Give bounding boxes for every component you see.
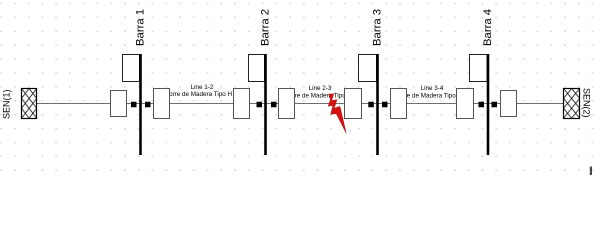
svg-text:Torre de Madera Tipo H: Torre de Madera Tipo H	[166, 91, 233, 98]
breaker left of Barra 1	[131, 102, 137, 108]
bus Barra 4	[487, 54, 490, 155]
breaker right of Barra 1	[145, 102, 151, 108]
svg-text:Line 2-3: Line 2-3	[309, 85, 332, 92]
svg-text:Line 3-4: Line 3-4	[421, 85, 444, 92]
bus Barra 2	[264, 54, 267, 155]
external grid SEN(2)	[564, 89, 580, 119]
result box SEN(2) feeder	[501, 91, 517, 117]
external grid SEN(1)	[22, 89, 37, 119]
breaker left of Barra 3	[368, 102, 374, 108]
result box line 2-3 left end	[279, 89, 295, 119]
svg-text:SEN(2): SEN(2)	[582, 88, 592, 118]
result box bus Barra 3	[359, 55, 377, 82]
svg-text:Line 1-2: Line 1-2	[191, 84, 214, 91]
result box line 3-4 right end	[457, 89, 474, 119]
breaker right of Barra 2	[271, 102, 277, 108]
result box bus Barra 1	[123, 55, 140, 82]
breaker right of Barra 3	[382, 102, 388, 108]
bus Barra 1	[139, 54, 142, 155]
bus Barra 3	[376, 54, 379, 155]
svg-text:SEN(1): SEN(1)	[2, 89, 12, 119]
svg-text:Barra 4: Barra 4	[482, 9, 494, 46]
result box SEN(1) feeder	[111, 91, 127, 117]
result box line 1-2 right end	[234, 89, 250, 119]
wire main horizontal feeder from SEN(1) to SEN(2)	[37, 103, 564, 105]
short-circuit bolt on Line 2-3	[328, 94, 346, 133]
svg-text:Barra 1: Barra 1	[135, 9, 147, 46]
breaker left of Barra 2	[257, 102, 263, 108]
result box line 3-4 left end	[391, 89, 407, 119]
breaker right of Barra 4	[492, 102, 498, 108]
result box line 2-3 right end	[345, 89, 362, 119]
cursor tick bottom right	[590, 167, 592, 176]
result box line 1-2 left end	[154, 89, 170, 119]
svg-text:Torre de Madera Tipo H: Torre de Madera Tipo H	[286, 93, 353, 100]
svg-text:Barra 3: Barra 3	[372, 9, 384, 46]
breaker left of Barra 4	[479, 102, 485, 108]
result box bus Barra 4	[470, 55, 488, 82]
svg-text:Barra 2: Barra 2	[260, 9, 272, 46]
result box bus Barra 2	[249, 55, 265, 82]
